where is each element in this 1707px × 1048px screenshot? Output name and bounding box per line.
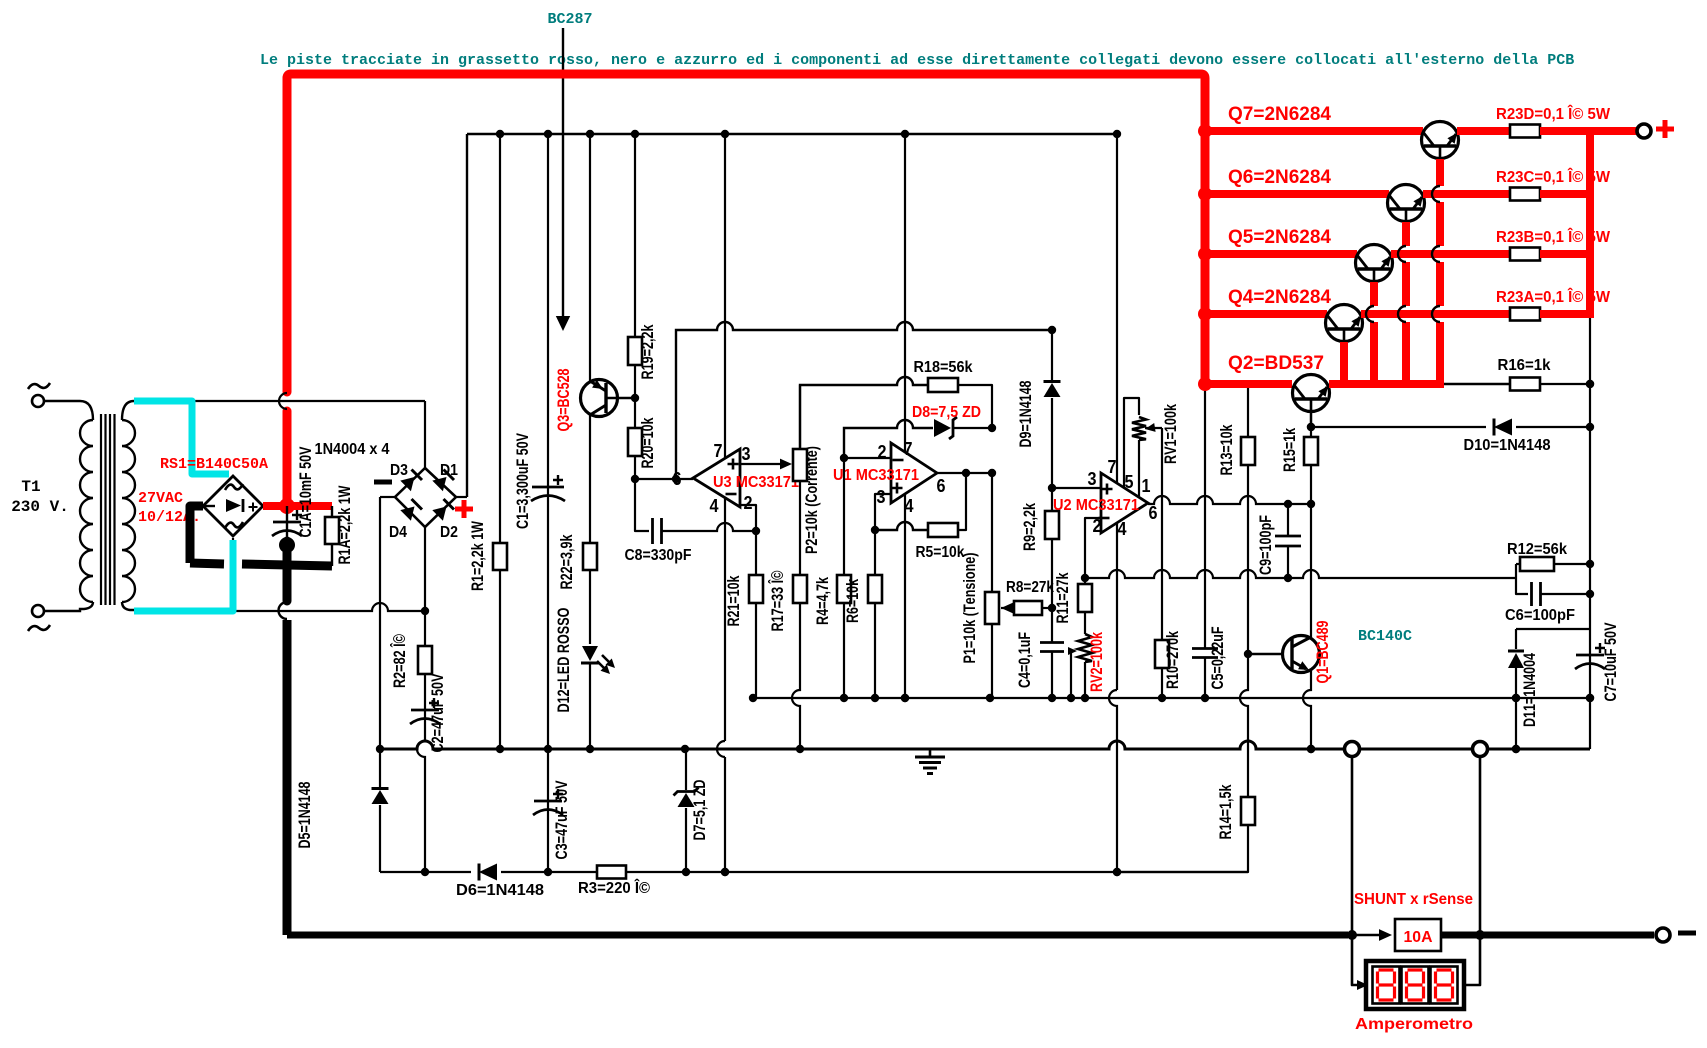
op-amp U1 MC33171 (points right) bbox=[904, 134, 906, 698]
zener diode D7 5,1 ZD bbox=[685, 749, 687, 790]
svg-text:C8=330pF: C8=330pF bbox=[625, 547, 692, 564]
svg-text:3: 3 bbox=[1088, 469, 1097, 489]
resistor R16 bbox=[1510, 378, 1540, 391]
svg-text:C1A=10mF 50V: C1A=10mF 50V bbox=[296, 446, 315, 537]
svg-text:R14=1,5k: R14=1,5k bbox=[1216, 784, 1235, 839]
svg-text:6: 6 bbox=[937, 476, 946, 496]
transistor Q6 2N6284 bbox=[1388, 185, 1425, 222]
wire cyan trace bottom (azzurro) bbox=[134, 540, 233, 611]
svg-text:27VAC: 27VAC bbox=[138, 490, 183, 507]
wire thick black bottom bus bbox=[287, 932, 1348, 939]
op-amp U3 MC33171 (points left) bbox=[724, 134, 726, 741]
svg-text:C6=100pF: C6=100pF bbox=[1505, 607, 1575, 624]
wire U2 pin2 stub bbox=[1085, 518, 1101, 578]
svg-text:R11=27k: R11=27k bbox=[1053, 572, 1072, 623]
transformer secondary winding bbox=[122, 420, 135, 602]
svg-text:230 V.: 230 V. bbox=[11, 498, 69, 516]
resistor R6 bbox=[874, 530, 876, 575]
terminal sense right bbox=[1473, 742, 1488, 757]
LED D12 (LED ROSSO) bbox=[582, 646, 598, 661]
trimmer RV1 100k bbox=[1124, 398, 1139, 487]
diode D10 1N4148 bbox=[1486, 417, 1516, 437]
wire display left lead bbox=[1352, 939, 1360, 985]
wire sense left column bbox=[1351, 757, 1354, 931]
svg-text:3: 3 bbox=[877, 487, 886, 507]
resistor R14 bbox=[1241, 797, 1255, 825]
wire thick black bus to - terminal bbox=[1441, 932, 1654, 939]
capacitor C6 bbox=[1516, 564, 1528, 594]
resistor R23D bbox=[1510, 125, 1540, 138]
wire thick red to resistor bbox=[1423, 190, 1510, 198]
transistor Q2 BD537 bbox=[1293, 375, 1330, 412]
wire primary bottom lead bbox=[44, 602, 93, 611]
transistor Q1 BC489 bbox=[1310, 504, 1312, 637]
potentiometer P1 10k Tensione bbox=[991, 473, 993, 592]
svg-text:6: 6 bbox=[1149, 503, 1158, 523]
svg-text:Q5=2N6284: Q5=2N6284 bbox=[1228, 227, 1331, 248]
svg-text:RV2=100k: RV2=100k bbox=[1087, 632, 1106, 692]
wire secondary bottom lead bbox=[122, 602, 134, 611]
svg-text:R15=1k: R15=1k bbox=[1280, 428, 1299, 472]
wire thick red to resistor bbox=[1391, 250, 1510, 258]
wire R13 column down to R14 bbox=[1240, 654, 1248, 797]
resistor R2 bbox=[424, 611, 426, 646]
svg-text:R4=4,7k: R4=4,7k bbox=[813, 577, 832, 625]
transistor Q4 2N6284 bbox=[1326, 305, 1363, 342]
svg-text:D3: D3 bbox=[390, 462, 408, 479]
svg-text:R19=2,2k: R19=2,2k bbox=[638, 324, 657, 379]
wire thick red row y=194 bbox=[1205, 190, 1389, 198]
wire U1 output row bbox=[937, 472, 992, 474]
wire thick red output transistor base bus bbox=[1329, 380, 1444, 388]
svg-text:Q3=BC528: Q3=BC528 bbox=[554, 369, 573, 432]
svg-text:Q7=2N6284: Q7=2N6284 bbox=[1228, 104, 1331, 125]
wire cyan trace top (azzurro) bbox=[134, 401, 229, 474]
wire Q2 emitter to D10 row bbox=[1310, 412, 1312, 427]
svg-text:1N4004 x 4: 1N4004 x 4 bbox=[315, 441, 390, 458]
svg-text:D12=LED ROSSO: D12=LED ROSSO bbox=[554, 608, 573, 713]
capacitor C7 bbox=[1589, 427, 1591, 749]
svg-text:U3 MC33171: U3 MC33171 bbox=[713, 474, 799, 491]
diode D11 1N4004 bbox=[1515, 629, 1517, 649]
transformer primary winding bbox=[80, 420, 93, 602]
AC input terminal top bbox=[32, 395, 44, 407]
capacitor C1 bbox=[547, 134, 549, 749]
svg-text:R5=10k: R5=10k bbox=[916, 544, 965, 561]
svg-text:D10=1N4148: D10=1N4148 bbox=[1464, 437, 1551, 454]
wire common rail row 749 bbox=[380, 741, 1590, 749]
bridge2 minus sign bbox=[374, 480, 392, 485]
wire top supply bus bbox=[467, 133, 1117, 135]
wire RV1 wiper down to R10 bbox=[1161, 428, 1163, 640]
svg-text:R13=10k: R13=10k bbox=[1217, 424, 1236, 475]
label + (red) bbox=[1656, 120, 1674, 138]
wire U3 pin3 to P2 wiper bbox=[740, 463, 789, 465]
svg-text:4: 4 bbox=[1118, 519, 1127, 539]
resistor R3 bbox=[597, 866, 626, 879]
wire secondary top lead bbox=[122, 401, 134, 420]
svg-text:10A: 10A bbox=[1404, 929, 1433, 946]
svg-text:4: 4 bbox=[710, 496, 719, 516]
capacitor C1A bbox=[286, 506, 288, 541]
svg-text:Le piste tracciate in grassett: Le piste tracciate in grassetto rosso, n… bbox=[260, 52, 1574, 69]
resistor R10 bbox=[1155, 640, 1169, 668]
capacitor C3 bbox=[547, 749, 549, 872]
svg-text:D8=7,5 ZD: D8=7,5 ZD bbox=[912, 404, 981, 421]
svg-text:2: 2 bbox=[744, 493, 753, 513]
wire D10 row bbox=[1311, 426, 1590, 428]
svg-text:R23D=0,1 Î© 5W: R23D=0,1 Î© 5W bbox=[1496, 105, 1610, 123]
svg-text:R9=2,2k: R9=2,2k bbox=[1020, 503, 1039, 551]
wire bridge1 bottom column bbox=[232, 538, 234, 611]
wire thick red row y=131 bbox=[1205, 127, 1423, 135]
svg-text:C3=47uF 50V: C3=47uF 50V bbox=[552, 780, 571, 859]
wire primary top lead bbox=[44, 401, 93, 420]
capacitor C2 bbox=[424, 674, 426, 741]
resistor R18 bbox=[800, 377, 928, 449]
transistor Q7 2N6284 bbox=[1422, 122, 1459, 159]
svg-text:RS1=B140C50A: RS1=B140C50A bbox=[160, 456, 268, 473]
resistor R1 bbox=[499, 134, 501, 543]
zener diode D8 7,5 ZD bbox=[844, 420, 933, 458]
svg-text:U2 MC33171: U2 MC33171 bbox=[1053, 497, 1139, 514]
svg-text:7: 7 bbox=[714, 441, 723, 461]
svg-text:D5=1N4148: D5=1N4148 bbox=[295, 782, 314, 849]
svg-text:BC287: BC287 bbox=[547, 11, 592, 28]
svg-text:D4: D4 bbox=[389, 524, 407, 541]
svg-text:Q2=BD537: Q2=BD537 bbox=[1228, 353, 1324, 374]
svg-text:R1=2,2k 1W: R1=2,2k 1W bbox=[468, 520, 487, 591]
svg-text:R12=56k: R12=56k bbox=[1507, 541, 1567, 558]
wire Q4 emitter column (red) bbox=[1340, 342, 1348, 380]
resistor R9 bbox=[1051, 488, 1053, 511]
svg-text:D2: D2 bbox=[440, 524, 458, 541]
svg-text:R21=10k: R21=10k bbox=[724, 575, 743, 626]
svg-text:R17=33 Î©: R17=33 Î© bbox=[768, 570, 787, 631]
terminal - output bbox=[1656, 928, 1670, 942]
svg-text:D11=1N4004: D11=1N4004 bbox=[1520, 653, 1539, 727]
resistor R21 bbox=[755, 531, 757, 575]
bridge2 plus sign (red) bbox=[455, 500, 473, 518]
node red junction at C1A bbox=[279, 498, 295, 514]
wire U1 pin2 row bbox=[844, 457, 891, 459]
wire thick red main positive trace bbox=[283, 411, 292, 502]
resistor R11 bbox=[1084, 578, 1086, 584]
wire Q7 emitter column (red) bbox=[1436, 159, 1444, 186]
wire U3 output row bbox=[635, 478, 693, 480]
wire bridge2 top to AC row bbox=[424, 401, 426, 468]
label - (minus) bbox=[1678, 931, 1696, 936]
svg-text:C4=0,1uF: C4=0,1uF bbox=[1015, 632, 1034, 688]
resistor R23C bbox=[1510, 188, 1540, 201]
svg-text:R6=10k: R6=10k bbox=[843, 579, 862, 623]
wire row 629 D11 top bbox=[1516, 628, 1590, 630]
wire sense right column bbox=[1479, 757, 1482, 931]
svg-text:R10=270k: R10=270k bbox=[1163, 631, 1182, 689]
svg-text:7: 7 bbox=[904, 439, 913, 459]
terminal sense left bbox=[1345, 742, 1360, 757]
wire thick red Q2 row bbox=[1205, 380, 1292, 388]
wire signal ground row bbox=[753, 697, 1590, 699]
wire thick red to resistor bbox=[1457, 127, 1510, 135]
resistor R20 bbox=[628, 428, 642, 456]
resistor R8 bbox=[1001, 603, 1013, 614]
wire bridge2 right lead bbox=[456, 496, 467, 498]
wire bottom control rail row 872 bbox=[380, 871, 1248, 873]
resistor R13 bbox=[1247, 384, 1249, 437]
svg-text:R18=56k: R18=56k bbox=[914, 359, 973, 376]
wire thick red row y=314 bbox=[1205, 310, 1327, 318]
svg-text:Q4=2N6284: Q4=2N6284 bbox=[1228, 287, 1331, 308]
svg-text:R16=1k: R16=1k bbox=[1498, 357, 1551, 374]
wire row 578 bbox=[1085, 570, 1516, 578]
transistor Q3 BC528 bbox=[589, 134, 591, 382]
wire thick red to + terminal bbox=[1590, 127, 1637, 135]
wire thick red after resistor bbox=[1540, 127, 1594, 135]
capacitor C4 bbox=[1051, 608, 1053, 642]
svg-text:R1A=2,2k 1W: R1A=2,2k 1W bbox=[335, 485, 354, 565]
svg-text:R20=10k: R20=10k bbox=[638, 417, 657, 468]
resistor R19 bbox=[634, 134, 636, 337]
svg-text:P1=10k (Tensione): P1=10k (Tensione) bbox=[960, 553, 979, 664]
svg-text:R8=27k: R8=27k bbox=[1006, 579, 1054, 596]
transformer core bbox=[100, 414, 102, 605]
shunt box 10A bbox=[1395, 919, 1441, 951]
svg-text:C5=0,22uF: C5=0,22uF bbox=[1208, 627, 1227, 690]
wire secondary top row to bridge2 bbox=[134, 400, 425, 402]
BC287 pointer arrow bbox=[562, 28, 564, 317]
wire thick red after resistor bbox=[1540, 190, 1594, 198]
terminal + output bbox=[1637, 124, 1651, 138]
resistor R23A bbox=[1510, 308, 1540, 321]
potentiometer P2 10k Corrente bbox=[799, 385, 801, 449]
svg-text:4: 4 bbox=[905, 496, 914, 516]
wire black right rail below R23A bbox=[1589, 318, 1591, 427]
capacitor C5 bbox=[1204, 384, 1206, 648]
svg-text:U1 MC33171: U1 MC33171 bbox=[833, 467, 919, 484]
AC input terminal bottom bbox=[32, 605, 44, 617]
diode D9 1N4148 bbox=[1051, 330, 1053, 381]
capacitor C9 bbox=[1287, 504, 1289, 536]
wire U3 pin2 stub bbox=[740, 505, 756, 528]
svg-text:D9=1N4148: D9=1N4148 bbox=[1016, 381, 1035, 448]
ammeter display (Amperometro) bbox=[1366, 961, 1464, 1009]
bridge diodes D1-D4 diamond bbox=[395, 468, 456, 527]
svg-text:D7=5,1 ZD: D7=5,1 ZD bbox=[690, 780, 709, 841]
svg-text:BC140C: BC140C bbox=[1358, 628, 1412, 645]
svg-text:P2=10k (Corrente): P2=10k (Corrente) bbox=[802, 446, 821, 554]
arrow into shunt bbox=[1356, 934, 1380, 937]
wire display right lead bbox=[1462, 939, 1480, 985]
svg-text:SHUNT x rSense: SHUNT x rSense bbox=[1354, 891, 1473, 908]
wire Q1 emitter down bbox=[1303, 671, 1311, 749]
wire thick red right rail bbox=[1586, 131, 1594, 318]
svg-text:Q1=BC489: Q1=BC489 bbox=[1313, 621, 1332, 684]
wire U1 pin3 stub bbox=[875, 494, 891, 530]
svg-text:D6=1N4148: D6=1N4148 bbox=[456, 882, 544, 899]
svg-text:C2=47uF 50V: C2=47uF 50V bbox=[428, 673, 447, 752]
svg-text:C9=100pF: C9=100pF bbox=[1256, 515, 1275, 575]
resistor R4 bbox=[843, 458, 845, 575]
svg-text:D1: D1 bbox=[440, 462, 458, 479]
svg-text:Amperometro: Amperometro bbox=[1355, 1016, 1473, 1033]
wire bridge2 bottom to R2 chain bbox=[424, 527, 426, 611]
svg-text:R22=3,9k: R22=3,9k bbox=[557, 534, 576, 589]
resistor R23B bbox=[1510, 248, 1540, 261]
svg-text:Q6=2N6284: Q6=2N6284 bbox=[1228, 167, 1331, 188]
wire bridge2 left lead bbox=[380, 496, 395, 498]
diode D6 1N4148 bbox=[471, 862, 501, 882]
wire column from bridge2 plus to top bus bbox=[466, 134, 468, 497]
resistor R1A bbox=[331, 506, 333, 517]
svg-text:C7=10uF 50V: C7=10uF 50V bbox=[1601, 622, 1620, 701]
resistor R12 bbox=[1516, 563, 1520, 565]
svg-text:7: 7 bbox=[1108, 457, 1117, 477]
ground symbol bbox=[929, 749, 932, 756]
op-amp U2 MC33171 (points right) bbox=[1116, 134, 1118, 690]
diode D5 1N4148 bbox=[379, 749, 381, 787]
wire black Q2 row to R16 bbox=[1444, 383, 1510, 385]
wire row 330 (upper feedback row) bbox=[676, 322, 1052, 479]
capacitor C8 bbox=[635, 479, 649, 531]
svg-text:3: 3 bbox=[742, 444, 751, 464]
svg-text:5: 5 bbox=[1125, 472, 1134, 492]
node thick black below C1A bbox=[279, 537, 295, 553]
bridge rectifier RS1 B140C50A bbox=[203, 476, 263, 536]
wire thick black bridge negative output bbox=[190, 506, 203, 563]
transistor Q5 2N6284 bbox=[1356, 245, 1393, 282]
svg-text:R2=82 Î©: R2=82 Î© bbox=[390, 634, 409, 688]
svg-text:T1: T1 bbox=[21, 478, 40, 496]
wire thick red row y=254 bbox=[1205, 250, 1357, 258]
trimmer RV2 100k bbox=[1078, 634, 1092, 662]
wire U2 output row bbox=[1148, 496, 1311, 504]
wire thick red after resistor bbox=[1540, 310, 1594, 318]
wire thick red after resistor bbox=[1540, 250, 1594, 258]
wire bridge2-left column with D5 bbox=[379, 497, 381, 749]
svg-text:RV1=100k: RV1=100k bbox=[1161, 404, 1180, 464]
wire Q6 emitter column (red) bbox=[1402, 222, 1410, 246]
resistor R17 bbox=[793, 575, 807, 603]
svg-text:C1=3,300uF 50V: C1=3,300uF 50V bbox=[513, 433, 532, 529]
node red bus junctions bbox=[1198, 124, 1212, 138]
wire Q5 emitter column (red) bbox=[1370, 282, 1378, 306]
wire thick red to resistor bbox=[1361, 310, 1510, 318]
svg-text:1: 1 bbox=[1142, 476, 1151, 496]
wire secondary bottom row bbox=[134, 603, 425, 611]
svg-text:R3=220 Î©: R3=220 Î© bbox=[578, 878, 650, 897]
wire thick black negative rail down bbox=[283, 541, 292, 601]
resistor R22 bbox=[589, 415, 591, 543]
resistor R15 bbox=[1310, 410, 1312, 437]
resistor R5 bbox=[875, 522, 928, 530]
wire U2 pin3 row bbox=[1052, 487, 1101, 489]
wire thick red bridge positive output bbox=[263, 502, 332, 510]
